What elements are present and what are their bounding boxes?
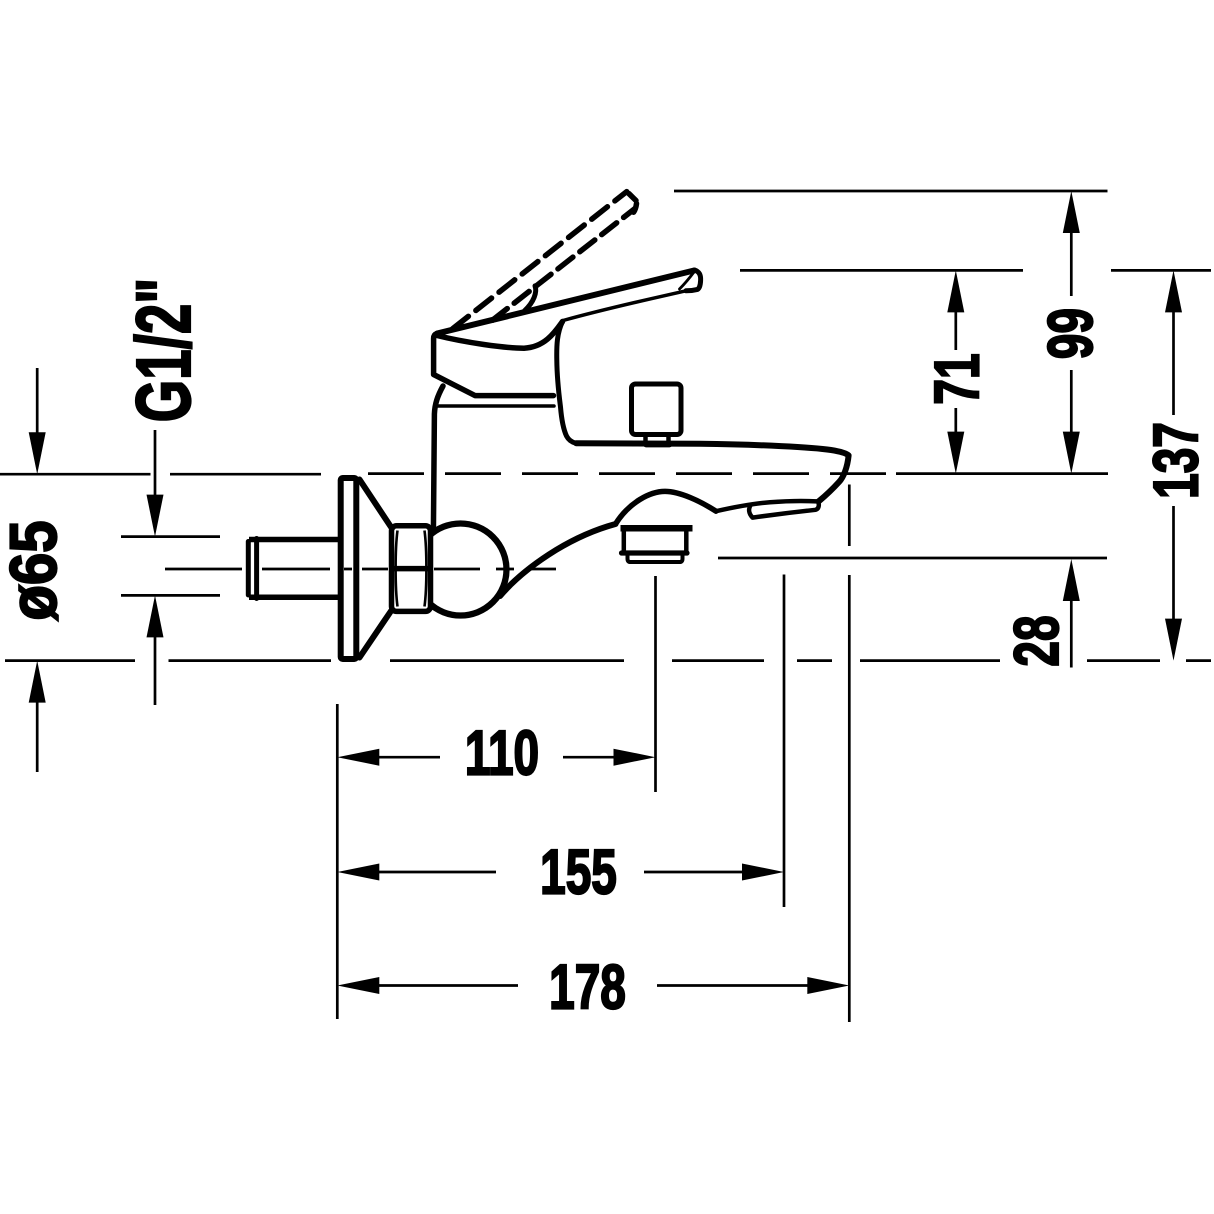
svg-text:G1/2": G1/2" — [122, 278, 207, 422]
svg-text:28: 28 — [1001, 615, 1072, 666]
svg-text:137: 137 — [1140, 422, 1211, 499]
svg-text:71: 71 — [921, 353, 992, 404]
svg-text:178: 178 — [549, 951, 626, 1022]
svg-text:155: 155 — [540, 836, 617, 907]
svg-text:99: 99 — [1035, 308, 1106, 359]
svg-text:ø65: ø65 — [0, 520, 71, 620]
svg-text:110: 110 — [465, 717, 539, 788]
